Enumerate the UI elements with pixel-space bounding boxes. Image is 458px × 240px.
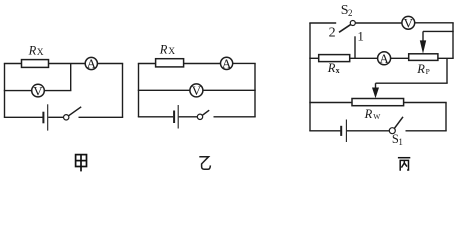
svg-text:X: X — [168, 47, 175, 57]
wire: yi voltmeter row, right segment — [203, 89, 256, 91]
switch pivot (yi) — [197, 114, 202, 119]
wire: jia top, ammeter to right vertical — [97, 63, 123, 65]
wire: jia bottom, battery to switch — [48, 116, 63, 118]
wire: yi top, ammeter to right vertical — [233, 62, 256, 64]
wire: RW row, left vertical to RW box — [309, 102, 352, 104]
svg-text:R: R — [159, 42, 168, 56]
switch S2 pivot — [350, 21, 355, 26]
wire: yi bottom, battery to switch — [179, 116, 198, 118]
wire: jia voltmeter row, left segment — [4, 90, 32, 92]
switch S1 blade — [394, 117, 403, 129]
label BING (Chinese char) — [398, 158, 410, 171]
battery (jia): short thick negative plate — [42, 112, 44, 124]
label RX (jia) — [28, 43, 44, 58]
wire: contact 1 vertical — [354, 36, 356, 58]
wire: bing row2, Rx to ammeter (through contact1 junction) — [350, 57, 378, 59]
label Rx (bing) — [327, 61, 340, 75]
wire: inner right vertical (bottom loop) — [445, 103, 447, 131]
svg-text:P: P — [426, 67, 430, 76]
wire: right vertical of jia — [122, 64, 124, 118]
svg-text:1: 1 — [357, 28, 364, 43]
switch blade (yi) — [203, 110, 210, 115]
wire: jia bottom, left vertical to battery — [4, 116, 43, 118]
wire: RW wiper horizontal — [376, 82, 448, 84]
battery (yi): long thin positive plate — [177, 105, 179, 129]
wire: bing bottom, left vertical to battery — [309, 130, 340, 132]
rheostat RW box — [352, 99, 404, 106]
wire: RP wiper feedback, horizontal — [423, 30, 454, 32]
wire: bing row2, RP to outer right vertical — [438, 57, 454, 59]
wire: jia top, left vertical to resistor — [4, 63, 22, 65]
label YI (Chinese char) — [199, 157, 210, 170]
wire: RW row, RW box to inner right vertical — [404, 102, 447, 104]
ammeter A (jia) — [85, 56, 97, 71]
label RW — [364, 107, 382, 121]
wire: left vertical of yi — [138, 64, 140, 117]
svg-text:R: R — [416, 62, 425, 76]
wire: jia top, resistor to ammeter — [49, 63, 86, 65]
svg-text:V: V — [192, 83, 202, 98]
wire: jia bottom, switch to right vertical — [79, 116, 124, 118]
rheostat RW wiper arrowhead — [372, 88, 379, 99]
svg-text:A: A — [87, 56, 97, 71]
wire: bing top, voltmeter to outer right vertical — [415, 22, 454, 24]
battery (bing): long thin positive plate — [345, 120, 347, 143]
rheostat RP wiper arrowhead — [420, 40, 426, 53]
wire: jia voltmeter row, right segment — [44, 90, 71, 92]
svg-text:1: 1 — [398, 137, 403, 147]
ammeter A (yi) — [221, 56, 233, 71]
wire: bing top, pivot to voltmeter — [355, 22, 402, 24]
wire: bing top, left vertical to contact 2 — [309, 22, 336, 24]
battery (bing): short thick negative plate — [340, 126, 342, 136]
label S2 — [341, 3, 353, 18]
svg-text:2: 2 — [348, 8, 353, 18]
svg-text:W: W — [373, 112, 381, 121]
rheostat RW wiper stem — [375, 83, 377, 89]
svg-text:V: V — [404, 16, 414, 31]
svg-text:X: X — [37, 48, 44, 58]
wire: bing row2, ammeter to RP — [391, 57, 409, 59]
svg-text:A: A — [222, 56, 232, 71]
voltmeter V (jia) — [32, 83, 45, 98]
switch S1 pivot — [389, 128, 395, 134]
resistor Rx (bing) — [319, 55, 350, 62]
wire: bing row2, left vertical to Rx — [309, 57, 318, 59]
svg-text:x: x — [336, 66, 340, 75]
battery (jia): long thin positive plate — [47, 104, 49, 130]
wire: yi bottom, left vertical to battery — [138, 116, 173, 118]
wire: inner vertical from row2 down to RW wiper wire — [446, 58, 448, 83]
wire: bing bottom, battery to switch S1 — [347, 130, 390, 132]
resistor RX (jia) — [22, 60, 49, 68]
svg-text:R: R — [327, 61, 336, 75]
switch blade (jia) — [69, 107, 82, 116]
wire: yi voltmeter row, left segment — [138, 89, 190, 91]
switch S2 blade — [339, 24, 351, 32]
battery (yi): short thick negative plate — [173, 111, 175, 124]
wire: yi top, resistor to ammeter — [184, 63, 221, 65]
rheostat RP box — [409, 54, 438, 61]
wire: bing bottom, switch to inner right vertical — [406, 130, 447, 132]
rheostat RP wiper stem — [422, 31, 424, 41]
voltmeter V (bing) — [402, 16, 415, 31]
ammeter A (bing) — [378, 51, 391, 66]
label RP — [416, 62, 430, 76]
label JIA (Chinese char) — [76, 155, 87, 172]
wire: yi bottom, switch to right vertical — [214, 116, 256, 118]
svg-text:V: V — [33, 83, 43, 98]
svg-text:A: A — [379, 51, 389, 66]
label S1 — [392, 132, 403, 147]
wire: junction vertical between RX/voltmeter branch (jia) — [70, 64, 72, 91]
switch pivot (jia) — [63, 115, 68, 120]
resistor RX (yi) — [156, 59, 184, 67]
wire: left vertical of bing — [309, 23, 311, 131]
wire: left vertical of jia — [4, 64, 6, 118]
wire: outer right vertical (top loop) — [452, 23, 454, 59]
svg-text:R: R — [28, 43, 37, 57]
svg-text:2: 2 — [329, 26, 336, 41]
svg-text:R: R — [364, 107, 373, 121]
wire: right vertical of yi — [254, 63, 256, 116]
wire: yi top, left vertical to resistor — [138, 63, 156, 65]
label RX (yi) — [159, 42, 175, 57]
voltmeter V (yi) — [190, 83, 203, 98]
